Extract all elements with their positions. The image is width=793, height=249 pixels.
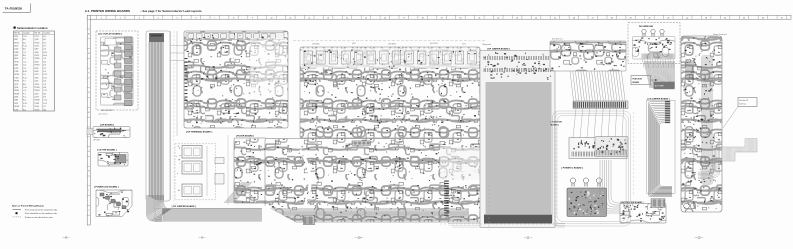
board: MAIN (upper center) bbox=[293, 41, 486, 138]
svg-text:IC685: IC685 bbox=[14, 52, 18, 54]
svg-text:C-3: C-3 bbox=[23, 90, 26, 92]
svg-text:D763: D763 bbox=[35, 77, 39, 79]
svg-text:25: 25 bbox=[554, 17, 556, 19]
svg-text:B-2: B-2 bbox=[44, 61, 47, 63]
svg-text:Location: Location bbox=[23, 32, 29, 35]
svg-text:RY172: RY172 bbox=[14, 42, 19, 44]
svg-text:31: 31 bbox=[667, 17, 669, 19]
svg-text:[ POWER LED BOARD ]: [ POWER LED BOARD ] bbox=[94, 186, 119, 189]
svg-text:Q307: Q307 bbox=[352, 43, 356, 45]
svg-text:TA-F555ESII: TA-F555ESII bbox=[5, 7, 22, 11]
svg-text:16: 16 bbox=[384, 17, 386, 19]
svg-text:IC691: IC691 bbox=[35, 45, 39, 47]
svg-text:D-7: D-7 bbox=[44, 68, 47, 70]
svg-text:Q206: Q206 bbox=[35, 52, 39, 54]
svg-text:Q338: Q338 bbox=[14, 97, 18, 99]
svg-text:F-7: F-7 bbox=[44, 106, 47, 108]
svg-text:[ DP JUMPER BOARD ]: [ DP JUMPER BOARD ] bbox=[172, 205, 196, 208]
semiconductor location table bbox=[14, 31, 55, 111]
svg-text:Q816: Q816 bbox=[35, 61, 39, 63]
board: lower center complex bbox=[262, 139, 565, 228]
svg-text:30: 30 bbox=[649, 17, 651, 19]
svg-text:D449: D449 bbox=[35, 71, 39, 73]
svg-text:[ AF BOARD ]: [ AF BOARD ] bbox=[100, 123, 114, 126]
svg-text:[ AC OUTLET BOARD ]: [ AC OUTLET BOARD ] bbox=[98, 32, 122, 35]
svg-text:[ L/R JUMPER BOARD ]: [ L/R JUMPER BOARD ] bbox=[647, 97, 670, 100]
svg-text:IC296: IC296 bbox=[14, 109, 18, 111]
svg-text:10: 10 bbox=[271, 17, 273, 19]
svg-text:2-1. PRINTED WIRING BOARDS: 2-1. PRINTED WIRING BOARDS bbox=[85, 9, 130, 13]
svg-text:F-7: F-7 bbox=[23, 93, 26, 95]
svg-text:Q508: Q508 bbox=[14, 87, 18, 89]
header text bbox=[85, 9, 202, 13]
svg-text:RY648: RY648 bbox=[35, 100, 40, 102]
svg-text:E-2: E-2 bbox=[44, 42, 47, 44]
svg-text:E-2: E-2 bbox=[44, 65, 47, 67]
svg-text:6: 6 bbox=[195, 17, 196, 19]
svg-text:F-7: F-7 bbox=[23, 81, 26, 83]
svg-text:18: 18 bbox=[422, 17, 424, 19]
svg-text:[ POWER IC BOARD ]: [ POWER IC BOARD ] bbox=[562, 166, 584, 169]
svg-text:Q482: Q482 bbox=[14, 55, 18, 57]
left ruler bbox=[87, 15, 90, 225]
page numbers bbox=[62, 235, 703, 239]
ribbon cable: vertical bundle bbox=[146, 31, 184, 201]
svg-text:C810 R815: C810 R815 bbox=[312, 44, 320, 46]
svg-text:DD UNREG BD: DD UNREG BD bbox=[639, 26, 654, 28]
svg-text:D229: D229 bbox=[14, 103, 18, 105]
svg-text:IC327: IC327 bbox=[14, 49, 18, 51]
svg-text:Semiconductor Location: Semiconductor Location bbox=[17, 26, 48, 30]
svg-text:AF UNIT: AF UNIT bbox=[94, 138, 101, 141]
svg-text:BOARD: BOARD bbox=[633, 81, 640, 84]
svg-text:B-2: B-2 bbox=[23, 42, 26, 44]
svg-text:Q139: Q139 bbox=[35, 39, 39, 41]
svg-text:3: 3 bbox=[139, 17, 140, 19]
svg-text:7: 7 bbox=[214, 17, 215, 19]
svg-text:34: 34 bbox=[724, 17, 726, 19]
svg-text:IC597: IC597 bbox=[35, 97, 39, 99]
svg-text:D389: D389 bbox=[14, 100, 18, 102]
svg-text:: Parts should be on the condu: : Parts should be on the conductor side. bbox=[24, 212, 58, 215]
svg-text:23: 23 bbox=[516, 17, 518, 19]
svg-text:: Parts mounted on the compone: : Parts mounted on the component side. bbox=[24, 208, 58, 211]
svg-text:RY694: RY694 bbox=[14, 74, 19, 76]
svg-text:IC785: IC785 bbox=[14, 71, 18, 73]
svg-text:[ DP JUMPER BOARD ]: [ DP JUMPER BOARD ] bbox=[487, 47, 510, 50]
top ruler bbox=[87, 15, 791, 19]
svg-text:F-10: F-10 bbox=[23, 45, 26, 47]
svg-text:IC594: IC594 bbox=[35, 106, 39, 108]
svg-text:F-14: F-14 bbox=[23, 103, 26, 105]
svg-text:29: 29 bbox=[630, 17, 632, 19]
ribbon cable: bend and horizontal bottom band bbox=[146, 195, 468, 222]
svg-text:Q255: Q255 bbox=[35, 93, 39, 95]
svg-text:RY395: RY395 bbox=[35, 65, 40, 67]
svg-text:C-4: C-4 bbox=[23, 61, 26, 63]
svg-text:1: 1 bbox=[101, 17, 102, 19]
svg-text:F-6: F-6 bbox=[44, 71, 47, 73]
svg-text:IC568: IC568 bbox=[35, 103, 39, 105]
svg-text:—12—: —12— bbox=[695, 235, 704, 239]
svg-text:C341: C341 bbox=[462, 44, 466, 46]
svg-text:RY468: RY468 bbox=[14, 93, 19, 95]
svg-text:Tochigi unit: Tochigi unit bbox=[482, 43, 491, 46]
svg-text:E-7: E-7 bbox=[44, 45, 47, 47]
svg-text:—9—: —9— bbox=[198, 235, 205, 239]
svg-text:IC163: IC163 bbox=[14, 77, 18, 79]
svg-text:IC377: IC377 bbox=[35, 74, 39, 76]
svg-text:C-8: C-8 bbox=[44, 58, 47, 60]
board: FILTER (diletter) bbox=[224, 135, 266, 203]
svg-text:35: 35 bbox=[743, 17, 745, 19]
svg-text:Q609: Q609 bbox=[14, 58, 18, 60]
svg-text:F-9: F-9 bbox=[23, 58, 26, 60]
svg-text:F-12: F-12 bbox=[23, 77, 26, 79]
svg-text:22: 22 bbox=[497, 17, 499, 19]
svg-text:8: 8 bbox=[233, 17, 234, 19]
section boundary dashes bbox=[174, 31, 634, 230]
svg-text:2: 2 bbox=[120, 17, 121, 19]
svg-text:IC625: IC625 bbox=[14, 68, 18, 70]
svg-text:D-2: D-2 bbox=[23, 74, 26, 76]
board: DP TERMINAL (upper left) bbox=[171, 31, 289, 200]
svg-text:21: 21 bbox=[478, 17, 480, 19]
board: POWER IC bbox=[562, 166, 607, 216]
svg-text:—10—: —10— bbox=[355, 235, 364, 239]
board: DD UNREG bbox=[628, 23, 680, 69]
svg-text:: Pattern on the side which is: : Pattern on the side which is seen. bbox=[24, 216, 54, 219]
svg-text:RY183: RY183 bbox=[35, 87, 40, 89]
svg-text:5: 5 bbox=[177, 17, 178, 19]
svg-text:1-617-204-11: 1-617-204-11 bbox=[98, 114, 108, 116]
legend: note on wiring boards bbox=[12, 205, 58, 219]
svg-text:RY896: RY896 bbox=[35, 58, 40, 60]
svg-text:BOARD ]: BOARD ] bbox=[551, 124, 559, 127]
svg-text:D-6: D-6 bbox=[44, 81, 47, 83]
svg-text:See Note 2-1: See Note 2-1 bbox=[552, 38, 563, 41]
svg-text:D-11: D-11 bbox=[23, 36, 26, 38]
svg-text:D255: D255 bbox=[14, 36, 18, 38]
svg-text:IC324: IC324 bbox=[35, 84, 39, 86]
svg-text:– See page 7 for Semiconducto: – See page 7 for Semiconductor Lead Layo… bbox=[140, 9, 202, 13]
svg-text:D-3: D-3 bbox=[23, 68, 26, 70]
svg-text:D-6: D-6 bbox=[23, 65, 26, 67]
board: AC OUTLET bbox=[96, 31, 138, 116]
label: FUNCTION BOARD with ribbon bbox=[631, 61, 675, 89]
svg-text:11: 11 bbox=[289, 17, 291, 19]
svg-text:RY161: RY161 bbox=[35, 42, 40, 44]
svg-text:Q726: Q726 bbox=[14, 84, 18, 86]
board: AF bbox=[87, 123, 130, 141]
svg-text:26: 26 bbox=[573, 17, 575, 19]
svg-text:C-3: C-3 bbox=[44, 84, 47, 86]
board: small left column bbox=[595, 137, 628, 157]
svg-text:D-7: D-7 bbox=[23, 106, 26, 108]
board: center jumper fan bbox=[480, 43, 555, 227]
svg-text:D638: D638 bbox=[14, 65, 18, 67]
svg-text:36: 36 bbox=[762, 17, 764, 19]
svg-text:17: 17 bbox=[403, 17, 405, 19]
svg-text:4: 4 bbox=[158, 17, 159, 19]
svg-text:24: 24 bbox=[535, 17, 537, 19]
svg-text:D697: D697 bbox=[14, 39, 18, 41]
svg-text:12: 12 bbox=[308, 17, 310, 19]
svg-text:D124: D124 bbox=[35, 81, 39, 83]
board: tall right power board bbox=[681, 33, 727, 212]
svg-text:RY663: RY663 bbox=[14, 90, 19, 92]
board: remote/motor bbox=[600, 160, 666, 223]
svg-text:D-14: D-14 bbox=[23, 87, 27, 89]
svg-text:RY267: RY267 bbox=[35, 109, 40, 111]
svg-text:37: 37 bbox=[781, 17, 783, 19]
svg-text:RY392: RY392 bbox=[14, 81, 19, 83]
svg-text:Note on Printed Wiring Boards: Note on Printed Wiring Boards bbox=[12, 205, 45, 208]
svg-text:15: 15 bbox=[365, 17, 367, 19]
svg-text:9: 9 bbox=[252, 17, 253, 19]
svg-text:—11—: —11— bbox=[524, 235, 533, 239]
svg-text:E-11: E-11 bbox=[44, 77, 47, 79]
svg-text:RY664: RY664 bbox=[35, 90, 40, 92]
svg-text:J: J bbox=[88, 210, 89, 212]
board: right column connector rows bbox=[550, 38, 628, 159]
svg-text:[ DP TERMINAL BOARD ]: [ DP TERMINAL BOARD ] bbox=[186, 130, 212, 133]
svg-text:20: 20 bbox=[460, 17, 462, 19]
svg-text:Ref. No.: Ref. No. bbox=[14, 33, 21, 35]
svg-text:E-3: E-3 bbox=[44, 97, 47, 99]
svg-text:28: 28 bbox=[611, 17, 613, 19]
svg-text:27: 27 bbox=[592, 17, 594, 19]
svg-text:RY471: RY471 bbox=[14, 61, 19, 63]
svg-text:13: 13 bbox=[327, 17, 329, 19]
svg-text:F-4: F-4 bbox=[23, 97, 26, 99]
svg-text:19: 19 bbox=[441, 17, 443, 19]
svg-text:IC678: IC678 bbox=[35, 55, 39, 57]
svg-text:F-13: F-13 bbox=[44, 103, 47, 105]
svg-text:C-10: C-10 bbox=[44, 100, 48, 102]
svg-text:Location: Location bbox=[44, 32, 50, 35]
relay group below DP TERMINAL bbox=[172, 135, 228, 208]
svg-text:Ref. No.: Ref. No. bbox=[35, 33, 42, 35]
svg-text:33: 33 bbox=[705, 17, 707, 19]
svg-text:E-10: E-10 bbox=[44, 52, 47, 54]
svg-text:—8—: —8— bbox=[62, 235, 69, 239]
semiconductor location heading bbox=[14, 26, 48, 30]
svg-text:D256: D256 bbox=[35, 68, 39, 70]
svg-text:RY508: RY508 bbox=[14, 106, 19, 108]
svg-text:C-9: C-9 bbox=[23, 52, 26, 54]
svg-text:FUNCTION: FUNCTION bbox=[633, 78, 643, 80]
svg-text:B-8: B-8 bbox=[44, 87, 47, 89]
svg-text:C-12: C-12 bbox=[44, 90, 48, 92]
svg-text:Power Trans unit: Power Trans unit bbox=[713, 33, 727, 36]
svg-text:32: 32 bbox=[686, 17, 688, 19]
svg-text:Q397: Q397 bbox=[35, 49, 39, 51]
title box TA-F555ES bbox=[3, 4, 31, 13]
right appendix box and hatch bbox=[698, 98, 757, 179]
board: POWER LED bbox=[94, 186, 132, 217]
board: CD TRE bbox=[97, 148, 128, 166]
svg-text:C332 R338: C332 R338 bbox=[388, 44, 396, 46]
svg-text:D-3: D-3 bbox=[44, 49, 47, 51]
ribbon: L/R jumper fan curves bbox=[647, 97, 676, 196]
svg-text:E-2: E-2 bbox=[44, 36, 47, 38]
svg-text:14: 14 bbox=[346, 17, 348, 19]
svg-text:IC175: IC175 bbox=[35, 36, 39, 38]
svg-text:Q746: Q746 bbox=[14, 45, 18, 47]
svg-text:D-12: D-12 bbox=[44, 74, 48, 76]
svg-text:[ FILTER BOARD ]: [ FILTER BOARD ] bbox=[236, 135, 254, 138]
svg-text:Q310 D305: Q310 D305 bbox=[430, 43, 438, 45]
svg-text:AC OUTLET: AC OUTLET bbox=[102, 109, 114, 112]
svg-text:(DD BAR): (DD BAR) bbox=[703, 56, 711, 59]
svg-text:[ CD TRE BOARD ]: [ CD TRE BOARD ] bbox=[97, 148, 117, 151]
